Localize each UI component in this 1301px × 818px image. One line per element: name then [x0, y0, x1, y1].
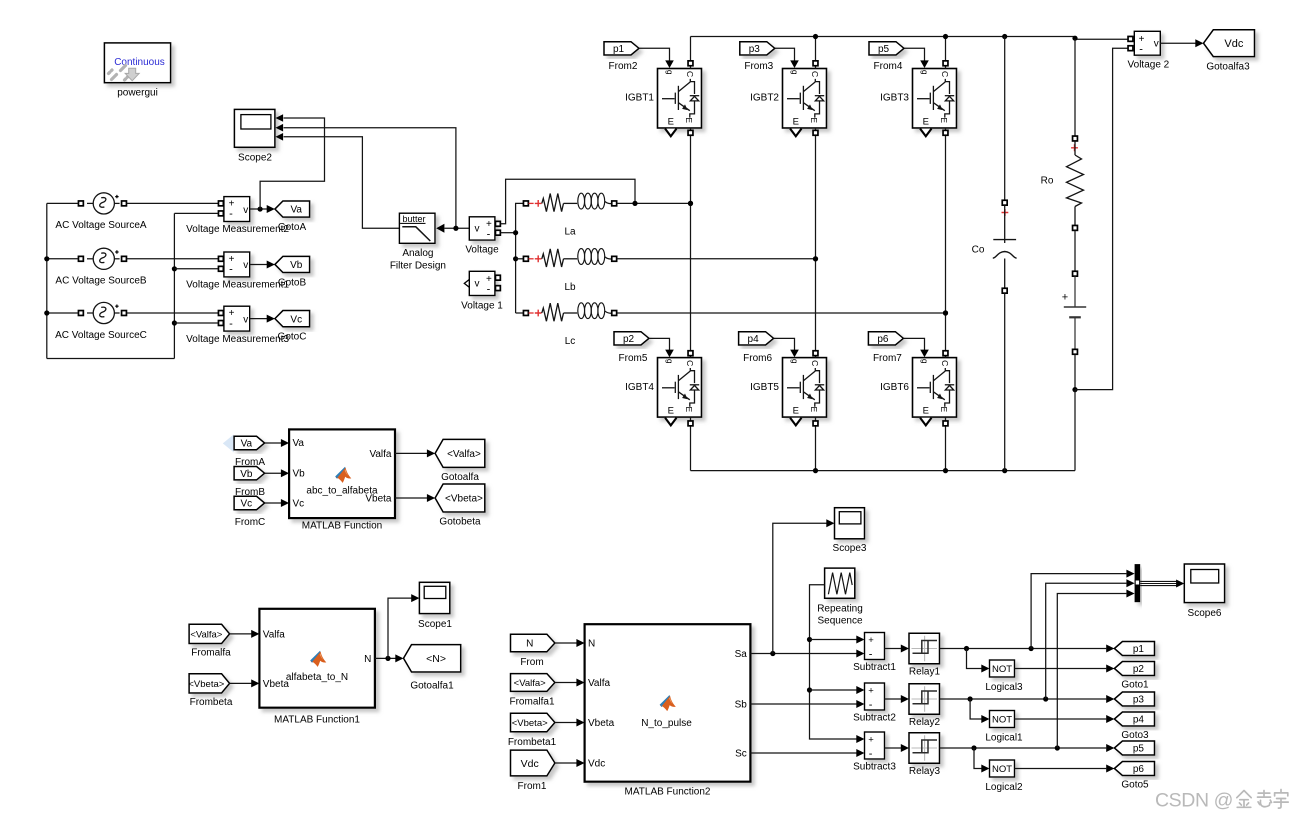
transistor IGBT1 — [658, 69, 702, 129]
svg-text:E: E — [668, 116, 674, 127]
svg-text:p1: p1 — [613, 44, 625, 55]
wire — [617, 201, 693, 206]
svg-text:E: E — [809, 117, 819, 123]
from tag FromC (Vc) — [234, 496, 265, 509]
voltmeter Voltage Measurement3 — [218, 306, 249, 331]
svg-text:-: - — [229, 318, 233, 330]
svg-text:NOT: NOT — [992, 664, 1012, 675]
svg-text:Subtract2: Subtract2 — [853, 712, 896, 723]
svg-text:E: E — [684, 406, 694, 412]
svg-text:p6: p6 — [877, 334, 889, 345]
subtractor Subtract3 — [865, 732, 885, 760]
svg-text:Gotoalfa1: Gotoalfa1 — [410, 681, 454, 692]
svg-text:Voltage 2: Voltage 2 — [1128, 59, 1170, 70]
wire — [555, 759, 585, 767]
wire — [127, 312, 219, 314]
wire — [943, 128, 948, 353]
series RLC branch Lb — [523, 249, 616, 267]
from tag From5 (p2) — [614, 332, 649, 345]
function block MATLAB Function2 (N_to_pulse) — [585, 624, 751, 782]
svg-text:powergui: powergui — [117, 87, 158, 98]
Logical3 label — [985, 682, 1023, 693]
svg-text:IGBT6: IGBT6 — [880, 382, 909, 393]
wire — [617, 256, 818, 261]
wire — [1015, 715, 1115, 723]
wire — [501, 179, 636, 224]
svg-text:g: g — [790, 359, 800, 364]
wire — [1057, 590, 1134, 749]
svg-text:v: v — [243, 205, 248, 216]
svg-text:N: N — [588, 639, 595, 650]
Scope2 label — [238, 152, 272, 163]
wire — [688, 37, 693, 69]
logic gate Logical2 (NOT) — [990, 760, 1015, 777]
FromB label — [235, 487, 265, 498]
wire — [444, 226, 469, 231]
node DC+ bus — [691, 34, 1129, 41]
svg-text:N: N — [364, 654, 371, 665]
svg-text:Va: Va — [293, 438, 305, 449]
IGBT5 label — [750, 382, 779, 393]
wire — [940, 695, 1115, 703]
wire — [395, 494, 435, 502]
wire — [265, 469, 290, 477]
svg-text:Logical3: Logical3 — [985, 682, 1023, 693]
goto tag Gotobeta — [435, 484, 485, 512]
svg-text:Sa: Sa — [735, 649, 748, 660]
goto tag p3 — [1114, 692, 1154, 706]
svg-text:E: E — [793, 116, 799, 127]
Gotoalfa1 label — [410, 681, 454, 692]
svg-text:GotoC: GotoC — [278, 331, 307, 342]
Scope3 label — [833, 543, 867, 554]
svg-text:v: v — [475, 224, 480, 235]
wire — [174, 212, 218, 214]
wire — [904, 48, 929, 68]
wire — [555, 679, 585, 687]
voltmeter Voltage Measurement2 — [218, 197, 249, 222]
svg-text:AC Voltage SourceA: AC Voltage SourceA — [55, 220, 146, 231]
FromC label — [235, 517, 266, 528]
svg-text:Subtract1: Subtract1 — [853, 662, 896, 673]
from tag Fromalfa1 (&lt;Valfa&gt;) — [511, 674, 555, 692]
from tag From3 (p3) — [740, 42, 775, 55]
From1 label — [518, 781, 547, 792]
Voltage Measurement1 label — [186, 280, 289, 291]
Scope6 label — [1188, 608, 1222, 619]
goto tag GotoC — [275, 311, 310, 327]
Logical1 label — [985, 733, 1023, 744]
wire — [775, 48, 799, 68]
wire — [1015, 765, 1115, 773]
svg-text:Vbeta: Vbeta — [588, 718, 615, 729]
Gotoalfa3 label — [1206, 61, 1250, 72]
svg-text:From2: From2 — [609, 61, 638, 72]
scope Scope2 — [234, 109, 283, 147]
svg-text:-: - — [487, 284, 491, 296]
wire — [639, 48, 674, 68]
AC Voltage SourceC label — [55, 330, 147, 341]
GotoA label — [278, 222, 307, 233]
svg-text:Continuous: Continuous — [114, 57, 165, 68]
wire — [1004, 293, 1006, 470]
wire — [807, 585, 865, 743]
from tag From2 (p1) — [604, 42, 639, 55]
scope Scope3 — [835, 508, 865, 539]
from tag From6 (p4) — [739, 332, 774, 345]
goto tag GotoA — [275, 201, 310, 217]
svg-text:Gotobeta: Gotobeta — [439, 517, 481, 528]
wire — [375, 654, 404, 662]
IGBT2 label — [750, 93, 779, 104]
wire — [555, 719, 585, 727]
svg-text:MATLAB Function: MATLAB Function — [302, 521, 382, 532]
svg-text:Relay2: Relay2 — [909, 717, 941, 728]
Frombeta label — [190, 697, 233, 708]
svg-text:<Valfa>: <Valfa> — [447, 449, 481, 460]
Goto3 label — [1121, 730, 1149, 741]
scope Scope1 — [419, 582, 449, 613]
from tag From7 (p6) — [868, 332, 903, 345]
wire — [47, 202, 79, 204]
svg-text:Voltage: Voltage — [465, 244, 499, 255]
svg-text:Va: Va — [241, 439, 253, 450]
svg-text:C: C — [940, 360, 950, 366]
port m output — [790, 418, 801, 426]
from tag Frombeta1 (&lt;Vbeta&gt;) — [511, 713, 555, 732]
svg-text:From7: From7 — [873, 353, 902, 364]
svg-text:Frombeta1: Frombeta1 — [508, 737, 557, 748]
wire — [174, 268, 218, 270]
wire — [265, 439, 290, 447]
wire — [1074, 231, 1076, 272]
logic gate Logical3 (NOT) — [990, 660, 1015, 677]
wire — [44, 203, 49, 358]
svg-text:Ro: Ro — [1041, 175, 1054, 186]
series RLC branch La — [523, 193, 616, 211]
subtractor Subtract2 — [865, 683, 885, 711]
goto tag p1 — [1114, 642, 1154, 656]
svg-text:C: C — [685, 360, 695, 366]
svg-text:Goto3: Goto3 — [1121, 730, 1149, 741]
wire — [47, 312, 79, 314]
relay Relay2 — [909, 684, 940, 715]
wire — [943, 417, 948, 471]
wire — [1072, 354, 1077, 392]
svg-text:+: + — [868, 735, 874, 746]
From6 label — [743, 353, 772, 364]
From7 label — [873, 353, 902, 364]
wire — [1160, 39, 1203, 47]
svg-text:C: C — [810, 360, 820, 366]
svg-text:E: E — [939, 406, 949, 412]
svg-text:p6: p6 — [1133, 764, 1145, 775]
IGBT3 label — [880, 93, 909, 104]
wire — [885, 645, 910, 653]
function block MATLAB Function1 (alfabeta_to_N) — [259, 609, 375, 708]
svg-text:Voltage Measurement1: Voltage Measurement1 — [186, 280, 289, 291]
wire — [250, 315, 275, 323]
From4 label — [874, 61, 903, 72]
svg-text:Sc: Sc — [735, 749, 747, 760]
Voltage Measurement3 label — [186, 334, 289, 345]
wire — [1031, 570, 1135, 649]
svg-text:From: From — [520, 657, 543, 668]
svg-text:AC Voltage SourceC: AC Voltage SourceC — [55, 330, 147, 341]
svg-text:v: v — [243, 314, 248, 325]
Fromalfa1 label — [509, 697, 554, 708]
svg-text:Valfa: Valfa — [588, 678, 610, 689]
goto tag Gotoalfa1 (N) — [404, 645, 461, 672]
wire — [970, 699, 989, 723]
powergui block — [104, 43, 170, 83]
wire — [688, 351, 693, 358]
wire — [688, 417, 693, 471]
goto tag p6 — [1114, 762, 1154, 776]
from tag Frombeta (&lt;Vbeta&gt;) — [188, 674, 229, 693]
subtractor Subtract1 — [865, 633, 885, 661]
voltmeter Voltage 2 — [1128, 31, 1160, 55]
Scope1 label — [418, 619, 452, 630]
svg-text:Vc: Vc — [293, 498, 305, 509]
svg-text:Lc: Lc — [565, 336, 576, 347]
Gotobeta label — [439, 517, 481, 528]
function block MATLAB Function (abc_to_alfabeta) — [289, 429, 395, 518]
GotoC label — [278, 331, 307, 342]
svg-text:From5: From5 — [619, 353, 648, 364]
svg-text:<Vbeta>: <Vbeta> — [445, 494, 483, 505]
wire — [516, 258, 524, 260]
goto tag Gotoalfa — [435, 439, 485, 467]
wire — [943, 351, 948, 358]
svg-text:Goto1: Goto1 — [1121, 680, 1149, 691]
svg-text:p5: p5 — [1133, 744, 1145, 755]
svg-text:Logical2: Logical2 — [985, 782, 1023, 793]
wire — [1046, 579, 1135, 699]
wire — [750, 749, 864, 757]
Relay3 label — [909, 766, 941, 777]
wire — [750, 650, 864, 658]
wire — [516, 312, 524, 314]
goto tag p2 — [1114, 662, 1154, 676]
svg-text:Voltage Measurement2: Voltage Measurement2 — [186, 224, 289, 235]
wire — [1075, 48, 1128, 389]
Relay1 label — [909, 667, 941, 678]
node DC- bus — [691, 468, 1076, 473]
From label — [520, 657, 543, 668]
svg-text:g: g — [920, 70, 930, 75]
svg-text:-: - — [869, 748, 873, 760]
Subtract1 label — [853, 662, 896, 673]
svg-text:Gotoalfa: Gotoalfa — [441, 472, 479, 483]
Repeating Sequence label — [817, 604, 863, 627]
wire — [230, 679, 260, 687]
wire — [388, 594, 419, 658]
svg-text:Frombeta: Frombeta — [190, 697, 233, 708]
svg-text:MATLAB Function2: MATLAB Function2 — [625, 786, 711, 797]
wire — [813, 351, 818, 358]
wire — [284, 137, 400, 228]
from tag From (N) — [511, 634, 555, 652]
Voltage Measurement2 label — [186, 224, 289, 235]
svg-text:Valfa: Valfa — [369, 449, 391, 460]
wire — [1074, 390, 1076, 471]
wire — [974, 748, 990, 773]
wire — [688, 128, 693, 353]
svg-text:<Valfa>: <Valfa> — [190, 629, 222, 640]
wire — [284, 128, 456, 229]
wire — [395, 449, 435, 457]
wire — [810, 636, 865, 644]
svg-text:La: La — [564, 227, 576, 238]
svg-text:<Vbeta>: <Vbeta> — [512, 718, 548, 729]
goto tag p5 — [1114, 741, 1154, 755]
wire — [172, 213, 177, 358]
svg-text:-: - — [869, 699, 873, 711]
svg-text:Vdc: Vdc — [1224, 38, 1243, 50]
AC Voltage SourceA label — [55, 220, 146, 231]
wire — [1004, 37, 1006, 201]
Lc label — [565, 336, 576, 347]
AC Voltage SourceB — [78, 248, 126, 269]
svg-text:C: C — [940, 71, 950, 77]
Co label — [972, 245, 985, 256]
svg-text:Goto5: Goto5 — [1121, 780, 1149, 791]
wire — [903, 338, 928, 357]
port m output — [790, 129, 801, 137]
wire — [813, 417, 818, 471]
svg-text:g: g — [665, 359, 675, 364]
Subtract3 label — [853, 761, 896, 772]
svg-text:p1: p1 — [1133, 644, 1145, 655]
svg-text:p4: p4 — [1133, 715, 1145, 726]
from tag From1 (Vdc) — [511, 750, 555, 776]
svg-text:Relay3: Relay3 — [909, 766, 941, 777]
svg-text:Scope2: Scope2 — [238, 152, 272, 163]
MATLAB Function2 label — [625, 786, 711, 797]
svg-text:Scope3: Scope3 — [833, 543, 867, 554]
svg-text:v: v — [1154, 39, 1159, 50]
Relay2 label — [909, 717, 941, 728]
from tag Fromalfa (&lt;Valfa&gt;) — [189, 624, 230, 643]
mux Mux — [1135, 564, 1141, 602]
IGBT1 label — [625, 93, 654, 104]
svg-text:p2: p2 — [1133, 664, 1145, 675]
svg-text:GotoA: GotoA — [278, 222, 307, 233]
svg-text:E: E — [668, 405, 674, 416]
From3 label — [744, 61, 773, 72]
svg-text:<Vbeta>: <Vbeta> — [188, 679, 224, 690]
port m output — [665, 129, 676, 137]
relay Relay1 — [909, 633, 940, 664]
svg-text:alfabeta_to_N: alfabeta_to_N — [286, 672, 348, 683]
svg-text:p5: p5 — [878, 44, 890, 55]
La label — [564, 227, 576, 238]
wire — [813, 37, 818, 69]
Voltage label — [465, 244, 499, 255]
svg-text:Scope1: Scope1 — [418, 619, 452, 630]
svg-text:Vc: Vc — [290, 314, 302, 325]
svg-text:IGBT1: IGBT1 — [625, 93, 654, 104]
AC Voltage SourceC — [78, 302, 126, 323]
transistor IGBT4 — [658, 358, 702, 418]
Ro label — [1041, 175, 1054, 186]
svg-text:N: N — [526, 639, 533, 650]
port m output — [920, 129, 931, 137]
wire — [47, 358, 175, 360]
svg-text:From3: From3 — [744, 61, 773, 72]
svg-text:<Valfa>: <Valfa> — [514, 678, 546, 689]
node branch input bus — [513, 203, 523, 313]
goto tag Gotoalfa3 (Vdc) — [1204, 30, 1255, 57]
from tag FromB (Vb) — [234, 467, 265, 480]
svg-text:g: g — [920, 359, 930, 364]
svg-text:Analog: Analog — [402, 248, 433, 259]
Lb label — [564, 282, 576, 293]
Voltage 2 label — [1128, 59, 1170, 70]
wire — [230, 630, 260, 638]
svg-text:Repeating: Repeating — [817, 604, 863, 615]
wire — [774, 338, 799, 357]
filter block Analog Filter Design — [399, 213, 444, 243]
source Repeating Sequence — [825, 568, 855, 598]
svg-text:IGBT3: IGBT3 — [880, 93, 909, 104]
wire — [260, 118, 324, 209]
svg-text:C: C — [810, 71, 820, 77]
logic gate Logical1 (NOT) — [990, 711, 1015, 728]
svg-text:Valfa: Valfa — [263, 629, 285, 640]
wire — [250, 205, 275, 213]
svg-text:Vb: Vb — [290, 260, 303, 271]
svg-text:-: - — [229, 208, 233, 220]
svg-text:Vdc: Vdc — [588, 759, 605, 770]
svg-text:Sequence: Sequence — [817, 616, 862, 627]
svg-text:-: - — [229, 264, 233, 276]
voltmeter Voltage Measurement1 — [218, 252, 249, 277]
wire — [773, 519, 835, 653]
svg-text:p3: p3 — [749, 44, 761, 55]
svg-text:Vb: Vb — [240, 469, 253, 480]
wire — [1140, 580, 1184, 588]
port m output — [665, 418, 676, 426]
wire — [265, 499, 290, 507]
resistor Ro — [1067, 136, 1084, 230]
svg-text:Relay1: Relay1 — [909, 667, 941, 678]
svg-text:E: E — [923, 405, 929, 416]
wire — [1015, 665, 1115, 673]
from tag From4 (p5) — [869, 42, 904, 55]
svg-text:C: C — [685, 71, 695, 77]
Logical2 label — [985, 782, 1023, 793]
voltmeter Voltage — [469, 217, 500, 241]
transistor IGBT3 — [913, 69, 957, 129]
svg-text:-: - — [1139, 44, 1143, 56]
svg-text:Voltage 1: Voltage 1 — [461, 300, 503, 311]
svg-text:Gotoalfa3: Gotoalfa3 — [1206, 61, 1250, 72]
Fromalfa label — [191, 648, 231, 659]
Goto5 label — [1121, 780, 1149, 791]
goto tag p4 — [1114, 712, 1154, 726]
wire — [127, 202, 219, 204]
battery DC source — [1062, 271, 1086, 354]
transistor IGBT6 — [913, 358, 957, 418]
svg-text:Vc: Vc — [241, 499, 253, 510]
svg-text:v: v — [475, 279, 480, 290]
svg-text:E: E — [684, 117, 694, 123]
svg-text:E: E — [939, 117, 949, 123]
svg-text:E: E — [793, 405, 799, 416]
wire — [649, 338, 674, 357]
